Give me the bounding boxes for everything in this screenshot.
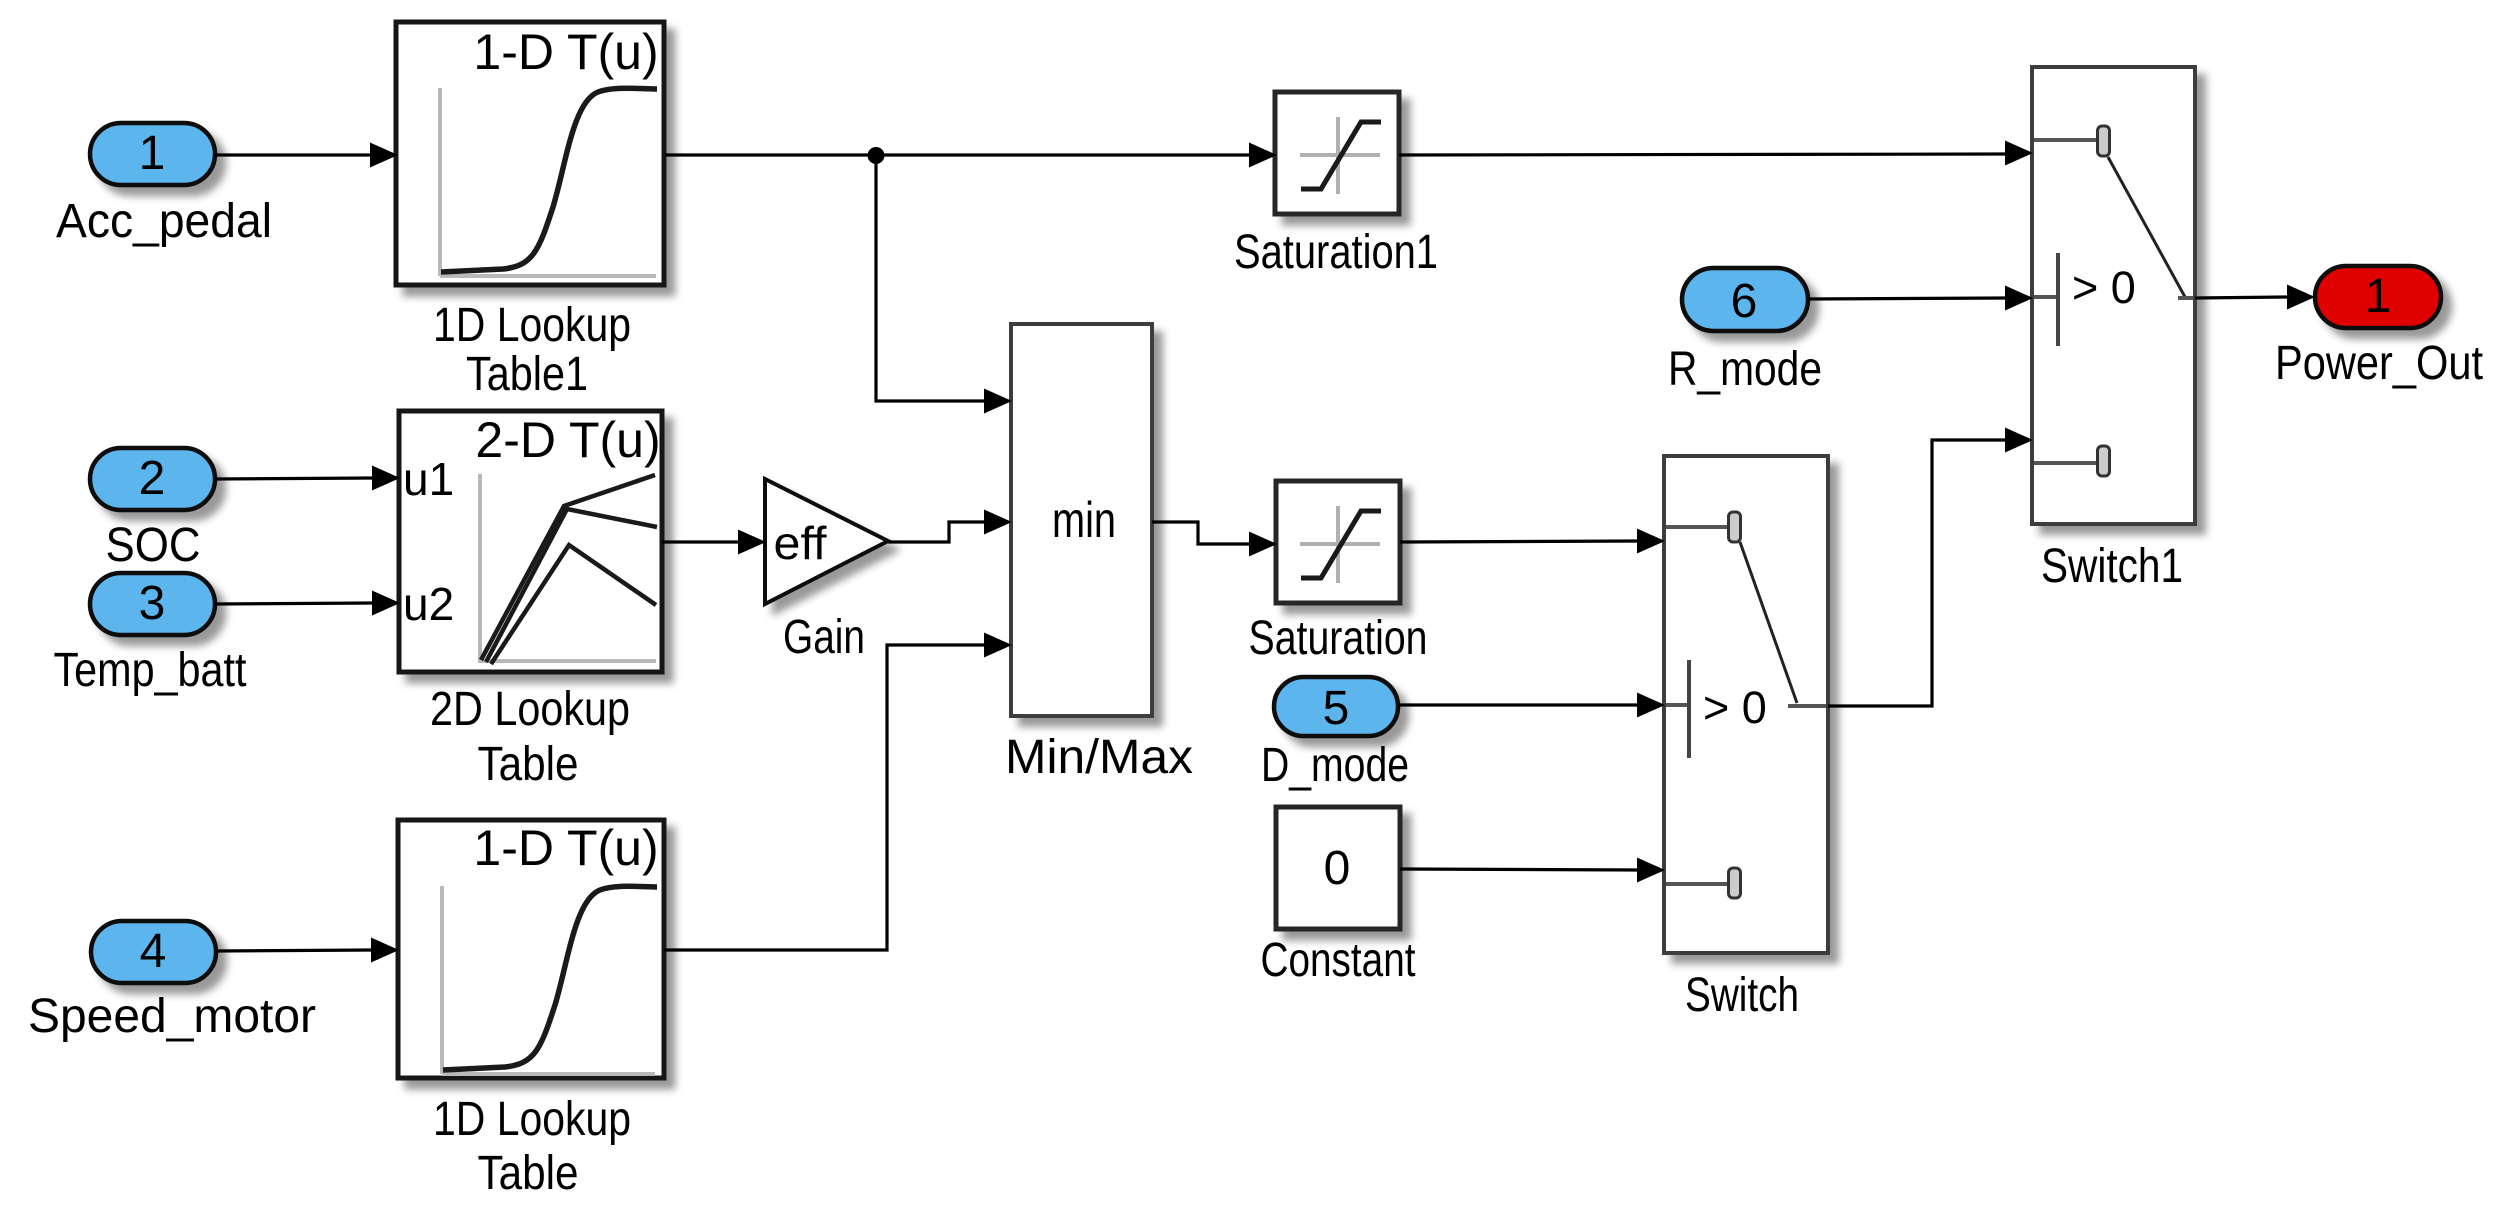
svg-text:eff: eff xyxy=(774,517,827,569)
lookup axes (Table) xyxy=(442,886,655,1074)
wire Gain to MinMax input2 xyxy=(888,510,1012,543)
input port 3 xyxy=(90,573,215,635)
svg-text:Power_Out: Power_Out xyxy=(2275,337,2483,390)
lookup curve (Table) xyxy=(443,886,657,1070)
block 1D Lookup Table (bottom) xyxy=(398,820,664,1078)
wire Switch1 to Power_Out xyxy=(2195,285,2315,310)
wire port6 to Switch1 input2 xyxy=(1808,286,2033,311)
lookup axes (Table1) xyxy=(440,88,656,276)
svg-text:Switch: Switch xyxy=(1685,969,1799,1022)
block Switch1 xyxy=(2032,67,2195,524)
svg-text:1-D T(u): 1-D T(u) xyxy=(473,820,658,876)
wire Saturation1 to Switch1 input1 xyxy=(1399,141,2033,166)
saturation icon xyxy=(1300,506,1381,583)
block 2D Lookup Table xyxy=(399,411,662,672)
switch internals xyxy=(1666,512,1826,898)
wire Saturation to Switch input1 xyxy=(1400,529,1665,554)
input port 4 xyxy=(91,921,216,983)
svg-text:min: min xyxy=(1052,492,1116,548)
saturation1 icon xyxy=(1300,117,1381,194)
input port 6 xyxy=(1682,268,1808,331)
wire port5 to Switch input2 xyxy=(1398,693,1665,718)
block Constant xyxy=(1276,807,1400,929)
svg-text:> 0: > 0 xyxy=(1703,682,1767,733)
2D lookup curve lines xyxy=(481,475,655,660)
lookup curve (Table1) xyxy=(441,88,657,272)
wire port1 to LUT1 xyxy=(214,143,398,168)
block Saturation xyxy=(1276,481,1400,603)
svg-text:Speed_motor: Speed_motor xyxy=(28,990,316,1043)
svg-text:Table: Table xyxy=(478,738,579,791)
svg-text:4: 4 xyxy=(140,925,167,978)
input port 5 xyxy=(1274,677,1398,736)
wire MinMax to Saturation xyxy=(1152,522,1277,557)
switch1 internals xyxy=(2034,126,2193,476)
svg-text:Table1: Table1 xyxy=(466,348,588,401)
svg-text:Gain: Gain xyxy=(783,611,865,664)
svg-text:1D Lookup: 1D Lookup xyxy=(433,1093,631,1146)
svg-text:Table: Table xyxy=(478,1147,579,1200)
svg-text:Min/Max: Min/Max xyxy=(1005,731,1193,784)
block Saturation1 xyxy=(1275,92,1399,214)
svg-text:0: 0 xyxy=(1324,842,1351,895)
wire Constant to Switch input3 xyxy=(1400,858,1665,883)
svg-text:u2: u2 xyxy=(403,578,454,630)
svg-text:Switch1: Switch1 xyxy=(2041,540,2183,593)
block Switch xyxy=(1664,456,1828,953)
svg-text:Temp_batt: Temp_batt xyxy=(54,644,247,697)
wire 2DLUT to Gain xyxy=(662,530,766,555)
svg-text:SOC: SOC xyxy=(106,519,201,572)
svg-text:Acc_pedal: Acc_pedal xyxy=(56,195,272,248)
svg-text:1-D T(u): 1-D T(u) xyxy=(473,24,658,80)
input port 1 xyxy=(90,123,215,185)
wire branch to MinMax input1 xyxy=(876,155,1012,414)
svg-text:1: 1 xyxy=(139,127,166,180)
svg-text:1D Lookup: 1D Lookup xyxy=(433,299,631,352)
block 1D Lookup Table1 xyxy=(396,22,664,285)
output port 1 Power_Out xyxy=(2315,266,2441,328)
svg-text:1: 1 xyxy=(2365,270,2392,323)
wire port2 to u1 xyxy=(215,466,400,491)
svg-text:D_mode: D_mode xyxy=(1261,739,1409,792)
svg-text:R_mode: R_mode xyxy=(1668,343,1822,396)
svg-text:2-D T(u): 2-D T(u) xyxy=(475,412,660,468)
svg-text:Saturation: Saturation xyxy=(1249,612,1428,665)
svg-text:u1: u1 xyxy=(403,453,454,505)
input port 2 xyxy=(90,448,215,510)
wire Switch to Switch1 input3 xyxy=(1828,428,2033,707)
wire port3 to u2 xyxy=(215,591,400,616)
svg-text:2D Lookup: 2D Lookup xyxy=(430,683,630,736)
svg-text:> 0: > 0 xyxy=(2072,262,2136,313)
svg-text:Constant: Constant xyxy=(1261,934,1416,987)
block Min/Max xyxy=(1011,324,1152,716)
junction dot xyxy=(868,147,885,164)
svg-text:Saturation1: Saturation1 xyxy=(1234,226,1438,279)
svg-text:2: 2 xyxy=(139,452,166,505)
wire LUT bottom to MinMax input3 xyxy=(664,633,1012,951)
svg-text:6: 6 xyxy=(1731,275,1758,328)
gain block eff xyxy=(765,479,888,604)
2D lookup axes xyxy=(480,474,656,661)
svg-text:5: 5 xyxy=(1323,682,1350,735)
svg-text:3: 3 xyxy=(139,577,166,630)
wire port4 to LUT bottom xyxy=(216,938,399,963)
wire LUT1 to Saturation1 xyxy=(665,143,1277,168)
